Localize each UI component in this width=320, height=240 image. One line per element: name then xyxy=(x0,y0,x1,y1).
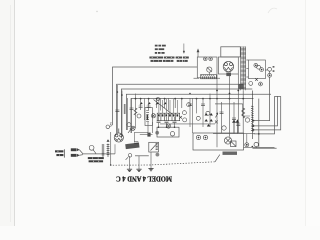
circled 6 note xyxy=(89,145,96,153)
svg-text:2: 2 xyxy=(110,122,112,126)
capacitor C17 xyxy=(157,117,161,127)
switch feed drops xyxy=(159,99,178,114)
text block top (component list) xyxy=(149,45,188,62)
wire v x160.5 xyxy=(160,98,162,111)
cross X mark right xyxy=(215,121,218,124)
wire v x190 xyxy=(189,98,191,127)
leader arrow (to tuning box) xyxy=(197,49,199,57)
socket pins V2 xyxy=(254,63,264,71)
verticals into lower row xyxy=(130,122,153,169)
right nested rects xyxy=(254,77,281,147)
ground G2 xyxy=(136,169,141,171)
padder C21 xyxy=(131,126,135,130)
wire y133.6 xyxy=(213,133,255,135)
capacitor C15 xyxy=(232,118,236,120)
junction dots right band xyxy=(216,90,260,135)
band switch S1 row xyxy=(157,113,180,121)
page seam right xyxy=(306,0,320,226)
tiny ref marks right of R10 xyxy=(273,66,275,67)
trimmer cap C6 xyxy=(147,98,151,110)
wire v x122 lower xyxy=(121,91,123,135)
trimmer arrows mid cluster xyxy=(139,102,166,104)
junction dots bus y98 xyxy=(140,98,231,100)
antenna coil L2 xyxy=(107,140,110,157)
wire v x196.5 xyxy=(196,98,198,113)
wire v x243.2 xyxy=(242,90,244,133)
wire v x144.5 xyxy=(144,98,146,120)
capacitor C10 xyxy=(201,104,205,106)
right band verticals xyxy=(217,74,275,147)
box power section xyxy=(193,133,244,150)
antenna label gaps xyxy=(57,151,60,152)
wire winding to V2 top xyxy=(246,59,248,61)
power box inner circles xyxy=(196,135,207,139)
wire v x168.5 xyxy=(168,98,170,111)
wire h y123.9 xyxy=(160,123,215,125)
circled reference numbers xyxy=(127,98,210,127)
antenna terminal labels xyxy=(55,150,63,156)
faint pencil curve top right xyxy=(268,8,277,13)
resistor pair right xyxy=(265,67,271,77)
padder circle C13 xyxy=(151,114,155,118)
diagonal link S1 xyxy=(154,100,173,115)
contact arrows column xyxy=(205,113,213,127)
wire v x131.5 xyxy=(131,98,133,133)
capacitor C11 xyxy=(130,108,134,110)
terminal ANT xyxy=(71,148,77,151)
capacitor C16 xyxy=(236,124,240,126)
label tube V3 xyxy=(125,143,139,150)
wire winding to V2 mid xyxy=(246,68,248,70)
box osc coil xyxy=(149,142,159,152)
wire v x110.7 xyxy=(110,132,112,165)
leader arrow (text block) xyxy=(183,44,185,54)
wire v x134.4 xyxy=(133,132,135,142)
solder dot xyxy=(252,146,254,148)
trimmer cap C5 xyxy=(139,98,143,110)
trimmer cap C7 xyxy=(156,98,158,108)
capacitor C20 xyxy=(134,142,138,144)
dots lower mid xyxy=(117,91,211,128)
switch contacts xyxy=(158,114,178,116)
slug bar xyxy=(147,114,149,120)
tube V1 xyxy=(223,61,233,71)
trimmer cap C8 xyxy=(164,98,166,108)
wire bus y89 xyxy=(121,89,252,138)
svg-text:MODEL 4 AND 4 C: MODEL 4 AND 4 C xyxy=(116,175,172,184)
padder circle C13b xyxy=(166,124,170,128)
wire elbow to divider xyxy=(243,104,250,116)
wire v x246.8 xyxy=(246,134,248,143)
wire bus y94.2 xyxy=(126,94,271,130)
text block gaps xyxy=(152,57,186,61)
box B tube section xyxy=(218,57,238,74)
label under power box xyxy=(223,152,238,155)
coupler label gaps xyxy=(92,158,99,162)
wire outer loop left xyxy=(113,67,198,125)
label under antenna wire xyxy=(88,157,104,162)
terminal 2 xyxy=(106,125,112,129)
coil blob xyxy=(147,133,150,137)
terminal GND xyxy=(71,154,77,157)
resistor R8 xyxy=(242,108,245,118)
resistor R12 (voltage divider) xyxy=(251,91,254,140)
capacitor C19 xyxy=(173,117,177,127)
dust speck xyxy=(96,11,97,12)
rectifier terminal xyxy=(245,143,249,147)
coil box L3 xyxy=(145,108,152,126)
model title xyxy=(116,175,172,184)
wiper arrow R12 xyxy=(216,113,218,118)
cross X mark xyxy=(179,116,182,119)
arrow pot wiper xyxy=(128,129,131,133)
contact arrows pair xyxy=(233,120,239,134)
wire antenna to V3 xyxy=(114,144,116,154)
capacitor C18 xyxy=(165,117,169,127)
wire v x135.5 xyxy=(135,94,137,129)
wire h y132.3 xyxy=(134,131,148,133)
circled ref 10 xyxy=(245,118,249,122)
transformer T1 winding xyxy=(240,47,246,91)
mid cluster small parts xyxy=(139,98,182,110)
tube V2 socket box xyxy=(249,60,266,79)
wire v x229.5 xyxy=(229,74,231,137)
trimmer C2 xyxy=(207,67,212,72)
page seam left xyxy=(0,0,14,226)
capacitor C9 xyxy=(188,104,192,106)
capacitor C14 xyxy=(220,112,224,114)
box C (plate loop) xyxy=(221,47,241,57)
wire winding to R10 bottom xyxy=(246,76,248,78)
wire right y102 xyxy=(215,103,243,105)
tube V3 xyxy=(114,129,123,143)
resistor R6 xyxy=(181,98,183,108)
leader to power box xyxy=(215,155,220,162)
wire v x117.4 lower xyxy=(116,85,118,133)
wire v x210 xyxy=(209,94,211,128)
wire bottom bus xyxy=(135,155,149,157)
wire bus B+ y84.3 xyxy=(117,84,243,133)
wire v x203 xyxy=(202,98,204,127)
resistor R5 xyxy=(174,98,176,108)
resistor R3 top xyxy=(194,77,221,79)
antenna coil L1 xyxy=(102,144,105,158)
resistor R7 xyxy=(134,108,137,115)
pins below V2 xyxy=(249,78,263,86)
wire v x238.3 xyxy=(237,74,239,133)
box A oscillator section xyxy=(197,57,217,78)
mid cluster extra verticals xyxy=(117,85,210,135)
box IF coil upper xyxy=(157,127,179,137)
label under winding xyxy=(239,84,244,89)
label box A xyxy=(201,75,217,79)
trimmer pair xyxy=(204,57,208,61)
wire v x127.4 lower xyxy=(126,98,128,130)
ground G3 xyxy=(148,169,153,171)
wire v x217 xyxy=(216,78,218,148)
label tube V1 xyxy=(226,73,231,77)
ground G1 xyxy=(127,169,132,171)
wire antenna lead xyxy=(79,150,115,154)
dashed AVC line xyxy=(110,162,215,165)
volume control circle xyxy=(126,154,132,160)
circled ref 9 xyxy=(222,126,226,130)
wire v x234 xyxy=(233,102,235,133)
wire bottom long y147.3 xyxy=(244,146,275,148)
capacitor C12 xyxy=(115,110,119,112)
wire v x221.5 xyxy=(221,102,223,133)
trimmer C22 xyxy=(253,142,277,148)
wire v x192.3 xyxy=(191,98,193,133)
coil L4 xyxy=(124,104,126,114)
wire bus y98.6 xyxy=(131,99,254,133)
